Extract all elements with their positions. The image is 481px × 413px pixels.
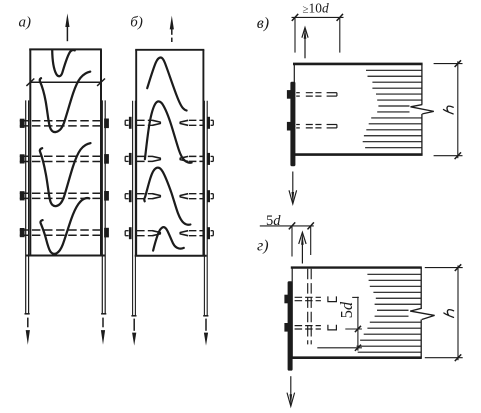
h label (fig g) xyxy=(444,310,454,318)
bottom right reaction arrow (fig b) xyxy=(204,319,208,346)
bolt row 1 (fig g) xyxy=(295,296,337,301)
outer plate outline (fig b) xyxy=(135,50,204,256)
break symbol (fig v) xyxy=(411,105,434,114)
svg-text:≥10d: ≥10d xyxy=(303,0,329,15)
stress peak 1 (fig b) xyxy=(147,57,186,110)
hatching (fig g) xyxy=(357,274,422,352)
force arrow up (fig v) xyxy=(302,28,308,59)
h dimension (fig v) xyxy=(434,60,463,159)
bolt row 4 (fig b) xyxy=(125,227,213,239)
svg-text:б): б) xyxy=(130,15,143,31)
inner 5d dimension (fig g) xyxy=(317,297,362,351)
bolt row 2 (fig v) xyxy=(296,125,337,128)
hatching (fig v) xyxy=(363,70,422,147)
left cover strip (fig a) xyxy=(25,100,30,313)
bolt row 2 (fig a) xyxy=(20,156,109,161)
stress curve U3 (fig a) xyxy=(40,198,89,254)
bolt row 3 (fig a) xyxy=(20,193,109,198)
bolt row 1 (fig a) xyxy=(20,121,109,126)
svg-text:в): в) xyxy=(257,15,269,32)
force arrow up (fig b) xyxy=(170,16,174,42)
bottom left reaction arrow (fig b) xyxy=(132,319,136,346)
bolt row 3 (fig b) xyxy=(125,190,213,202)
bolt row 2 (fig g) xyxy=(295,325,337,330)
stress peak 3 (fig b) xyxy=(144,168,190,225)
dimension line 5d horizontal (fig g) xyxy=(260,222,314,256)
dimension line 10d (fig v) xyxy=(292,14,344,53)
edge plate bar (fig g) xyxy=(288,281,293,370)
edge plate bar (fig v) xyxy=(290,82,295,167)
right strip (fig b) xyxy=(203,101,208,316)
stress curve U2 (fig a) xyxy=(40,143,91,206)
right cover strip (fig a) xyxy=(101,100,106,313)
reaction arrow down (fig v) xyxy=(289,172,297,205)
gusset plate outline (fig v) xyxy=(293,64,423,155)
stress peak 4 (fig b) xyxy=(153,227,184,250)
reaction arrow down (fig g) xyxy=(287,376,295,406)
svg-text:5d: 5d xyxy=(337,301,356,318)
h label (fig v) xyxy=(444,106,454,114)
svg-text:а): а) xyxy=(19,14,32,30)
anchor dashed line vertical (fig g) xyxy=(308,269,312,345)
middle plate outline (fig a) xyxy=(29,49,102,255)
force arrow up (fig a) xyxy=(65,13,69,41)
bottom left reaction arrow (fig a) xyxy=(26,318,30,345)
stress curve U1 (fig a) xyxy=(40,72,90,132)
bolt row 1 (fig v) xyxy=(296,93,337,96)
bottom edge of plate (fig b) xyxy=(135,255,207,257)
bolt row 1 (fig b) xyxy=(125,117,213,129)
break symbol (fig g) xyxy=(410,308,434,319)
gusset plate outline (fig g) xyxy=(291,268,422,358)
svg-text:г): г) xyxy=(257,238,269,255)
bottom edge of middle plate (fig a) xyxy=(26,254,106,256)
force arrow up (fig g) xyxy=(299,232,306,263)
h dimension (fig g) xyxy=(425,264,463,361)
bottom right reaction arrow (fig a) xyxy=(101,318,105,345)
stress peak 2 (fig b) xyxy=(145,101,192,162)
splice line with end ticks (fig a) xyxy=(26,79,105,86)
stress curve top box (fig a) xyxy=(52,50,75,77)
bolt row 2 (fig b) xyxy=(125,153,213,165)
bolt row 4 (fig a) xyxy=(20,230,109,235)
left strip (fig b) xyxy=(131,101,136,316)
